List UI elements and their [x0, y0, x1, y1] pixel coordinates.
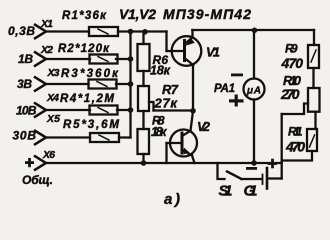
wire row5 — [46, 136, 90, 138]
resistor R8 — [138, 129, 150, 154]
wire R10 to R11 — [314, 112, 316, 129]
connector X4 — [35, 103, 46, 117]
connector X6 — [35, 156, 46, 170]
svg-text:Общ.: Общ. — [22, 173, 53, 187]
node bus / PA1 bottom — [251, 160, 257, 166]
transistor V1 — [167, 30, 202, 111]
meter sign minus — [231, 74, 243, 77]
wire R8 to bottom bus — [142, 154, 144, 163]
wire R11 bottom jog — [282, 151, 312, 161]
connector X2 — [35, 52, 46, 66]
node row3 — [128, 81, 134, 87]
wire R6-R7 — [142, 71, 144, 86]
junction dots — [128, 28, 258, 166]
wire row4 — [46, 109, 90, 111]
transistor V2 — [167, 111, 198, 163]
svg-text:G1: G1 — [244, 183, 258, 200]
svg-text:X4: X4 — [46, 92, 59, 104]
resistor R4 — [90, 106, 118, 115]
svg-text:R1*36к: R1*36к — [62, 10, 107, 22]
svg-text:X2: X2 — [40, 44, 53, 56]
svg-text:470: 470 — [285, 139, 305, 155]
resistor R11 — [307, 129, 317, 151]
resistor R2 — [90, 55, 118, 64]
node row4 — [128, 107, 134, 113]
svg-text:0,3В: 0,3В — [8, 24, 35, 38]
meter sign plus — [229, 95, 244, 107]
resistor R7 — [138, 86, 149, 111]
svg-text:18к: 18к — [151, 125, 167, 139]
svg-text:X1: X1 — [40, 18, 53, 30]
svg-text:X3: X3 — [47, 67, 60, 79]
svg-text:270: 270 — [280, 86, 300, 102]
resistor R1 — [89, 27, 118, 36]
node row2 — [128, 56, 134, 62]
wire top bus R1 to V1 base corner — [118, 30, 167, 32]
svg-text:18к: 18к — [150, 64, 171, 78]
resistor R5 — [90, 133, 119, 142]
svg-text:S1: S1 — [219, 183, 233, 200]
connector X1 — [35, 25, 46, 39]
wire bottom bus — [46, 162, 282, 164]
wire row2 — [46, 58, 90, 60]
svg-text:МП39-МП42: МП39-МП42 — [163, 6, 251, 22]
wire battery riser — [281, 114, 283, 179]
battery sign plus — [268, 159, 278, 169]
svg-text:X6: X6 — [42, 149, 55, 161]
connector X3 — [35, 77, 46, 91]
svg-text:R9: R9 — [285, 42, 298, 56]
meter PA1 — [253, 30, 255, 79]
resistor R9 — [308, 45, 319, 68]
svg-text:а): а) — [164, 191, 180, 208]
wire right rail corner down — [313, 30, 315, 45]
wire row3 — [46, 83, 89, 85]
wire R7-R8 — [142, 111, 144, 129]
svg-text:R11: R11 — [288, 125, 303, 139]
wire middle bus top — [142, 32, 144, 45]
switch S1 — [218, 163, 225, 179]
svg-text:3В: 3В — [17, 77, 32, 91]
wire emitter line to node — [154, 109, 194, 111]
resistor R3 — [89, 80, 117, 89]
svg-text:PA1: PA1 — [214, 83, 235, 95]
svg-text:R2*120к: R2*120к — [58, 43, 110, 55]
svg-text:R4*1,2М: R4*1,2М — [60, 93, 114, 105]
wire top bus left of R1 — [46, 30, 89, 32]
wire R9-R10 — [312, 68, 314, 88]
node top bus / R6 — [142, 29, 148, 35]
connector X5 — [35, 131, 46, 145]
battery sign minus — [246, 167, 257, 170]
svg-text:1В: 1В — [18, 52, 33, 66]
wire R10 bottom jog — [282, 104, 308, 115]
wire top right rail — [192, 29, 314, 31]
svg-text:V2: V2 — [197, 119, 211, 134]
resistor R6 — [138, 44, 150, 71]
svg-text:X5: X5 — [46, 113, 60, 125]
node bus / R8 — [141, 160, 147, 166]
wire left bus — [129, 32, 131, 138]
resistor R10 — [308, 88, 320, 112]
label plus X6 — [25, 158, 34, 167]
node top bus / left bus — [128, 29, 134, 35]
svg-text:30В: 30В — [13, 129, 37, 143]
wire R7 stub to emitter line — [149, 102, 154, 111]
svg-text:μА: μА — [246, 86, 261, 97]
svg-text:10В: 10В — [16, 104, 37, 118]
svg-text:V1,V2: V1,V2 — [119, 6, 156, 22]
svg-text:470: 470 — [281, 55, 304, 71]
node rail / PA1 top — [252, 28, 258, 34]
battery G1 — [262, 175, 264, 185]
svg-text:27к: 27к — [154, 96, 179, 111]
node emitter junction — [190, 108, 196, 114]
svg-text:V1: V1 — [206, 45, 220, 60]
